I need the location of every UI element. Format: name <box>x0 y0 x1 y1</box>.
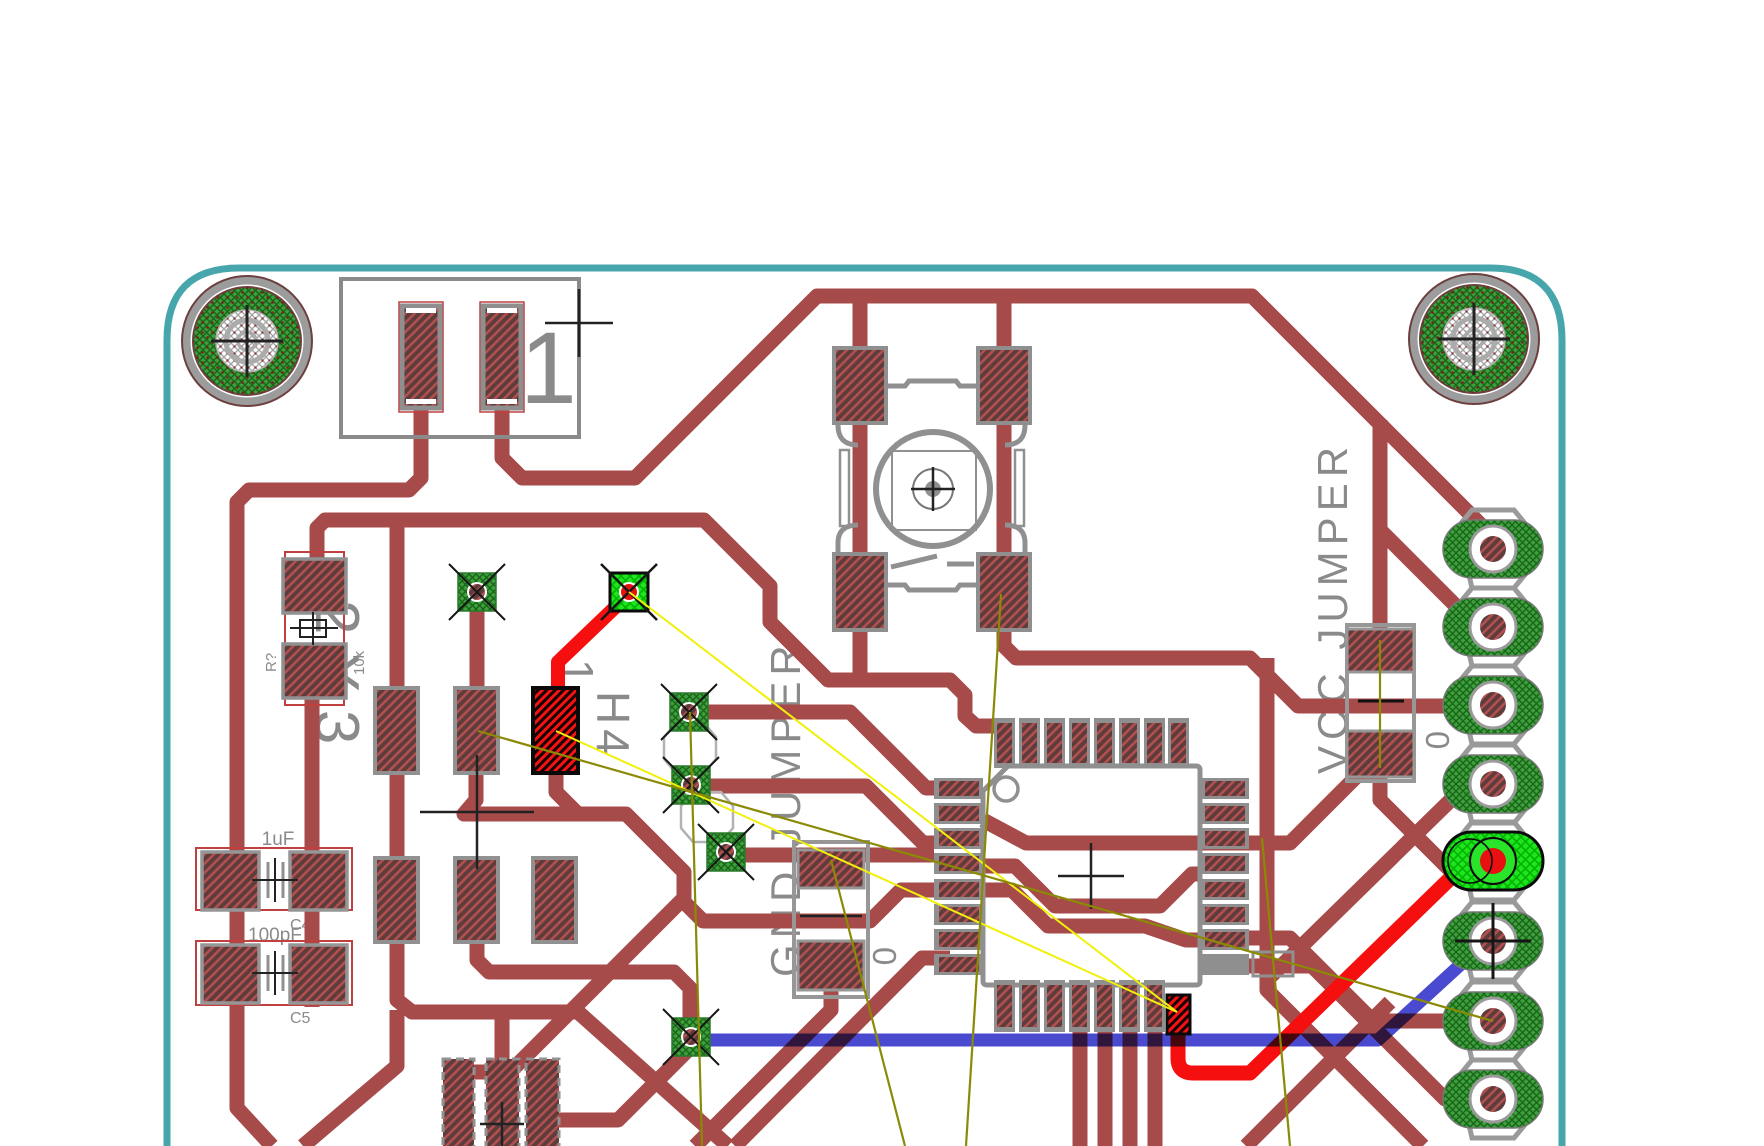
wire VCC jumper bottom pad to header pad5 <box>1380 777 1455 875</box>
via V5 <box>698 824 754 880</box>
via V3 <box>661 684 717 740</box>
airwire olive via V3 down <box>690 712 702 1146</box>
wire 2X3 r1c2 bottom to QFP pin L5 <box>464 773 934 921</box>
pad H4.1 selected <box>533 688 578 773</box>
crosshair J1 origin <box>545 289 613 357</box>
svg-text:R?: R? <box>263 653 280 672</box>
wire QFP bottom pin verticals <box>1080 1032 1155 1146</box>
QFP bottom pins, pin B8 selected <box>994 980 1190 1034</box>
pad S1.4 <box>978 554 1030 630</box>
airwire olive GND jumper down <box>831 860 905 1146</box>
svg-text:0: 0 <box>866 947 903 965</box>
green vias <box>449 564 754 1065</box>
pad r1c2 <box>455 688 498 773</box>
header pad 4 <box>1443 755 1543 813</box>
wire diagonal to bottom connector pad1 <box>473 898 684 1072</box>
via V6 <box>663 1009 719 1065</box>
pad r1c1 <box>375 688 418 773</box>
wire green via3 to QFP pin L4 <box>743 848 934 863</box>
bottom connector pads <box>443 1059 559 1146</box>
wire column1 lower diagonal to bottom edge <box>303 1010 397 1146</box>
connector J1 silkscreen box <box>341 279 613 437</box>
airwire yellow via V2 to QFP pin B8 <box>629 592 1177 1012</box>
wire vertical branch from switch net down right side <box>1267 658 1423 1146</box>
wire green via H to QFP pin L1 <box>707 712 934 788</box>
via V2 selected <box>601 564 657 620</box>
wire QFP pin R7 to header pad7 <box>1249 938 1468 1021</box>
wire QFP pin R8 to header pad8 <box>1249 966 1468 1099</box>
via V4 <box>663 757 719 813</box>
selected trace (bright red) from QFP pin B8 to header pad5 <box>1178 861 1490 1073</box>
QFP top pins 1-8 <box>994 718 1189 768</box>
wire switch pad TL up to bus <box>853 289 868 348</box>
pad r2c3 <box>533 858 576 942</box>
wire bottom connector pad3 to green via <box>559 1047 691 1120</box>
pin silhouettes near vias <box>664 723 733 842</box>
wire branch to bottom connector pad2 <box>495 1012 510 1065</box>
header pad 3 <box>1443 676 1543 734</box>
wire green via to 2X3 pad r1c2 <box>470 608 485 692</box>
airwire olive 2X3 r1c2 to header pad7 <box>478 731 1493 1021</box>
pad J1.1 <box>402 306 440 408</box>
connector 2X3 pads <box>375 688 578 942</box>
svg-text:1uF: 1uF <box>262 829 295 850</box>
selected trace (bright red) from H4 pad1 to via <box>558 594 629 700</box>
wire switch pad TR up to bus <box>997 289 1012 348</box>
crosshair 2X3 origin <box>420 755 534 869</box>
pad S1.2 <box>978 348 1030 423</box>
GND jumper SJ1 <box>794 842 868 997</box>
wire QFP interior net B <box>983 866 1202 906</box>
via V1 <box>449 564 505 620</box>
header pads right column <box>1443 510 1543 1138</box>
pad J1.2 <box>483 306 521 408</box>
svg-text:0: 0 <box>1419 731 1456 749</box>
wire header pad4 diagonal down-left <box>1268 790 1461 979</box>
board outline (teal) <box>239 268 1562 1146</box>
courtyard J1.1 <box>399 302 443 412</box>
pad S1.3 <box>834 554 886 630</box>
airwire olive right <box>1262 838 1290 1146</box>
IC U1 QFP32 <box>934 718 1293 1034</box>
wire from pad A2 right to top-right corner, down to VCC jumper and header pin1 <box>502 296 1489 533</box>
header pin silhouettes <box>1458 510 1528 1138</box>
wire diagonal parallel below GND jumper <box>735 958 950 1146</box>
header pad 8 <box>1443 1070 1543 1128</box>
mounting hole top-right <box>1409 274 1539 404</box>
wire switch TL to BL <box>853 423 868 554</box>
wire S-trace from R1 top across to QFP pin L1 <box>317 520 1000 726</box>
header pad 5 selected <box>1443 832 1543 890</box>
wire 2X3 r1c3 bottom short <box>556 773 578 814</box>
wire GND jumper bottom down to bottom edge <box>695 990 831 1146</box>
wire 2X3 column1 vertical <box>397 520 728 1146</box>
wire green via to QFP pin L3 <box>709 786 934 843</box>
wire switch BR right to header pad3 <box>1004 630 1465 706</box>
header pad 2 <box>1443 598 1543 656</box>
svg-text:C5: C5 <box>290 1010 311 1027</box>
svg-text:1: 1 <box>520 311 577 425</box>
airwire yellow H4.1 to QFP pin B8 <box>556 731 1177 1012</box>
pad S1.1 <box>834 348 886 423</box>
airwire olive switch pad S1.4 down <box>966 594 1001 1146</box>
capacitor C1 1uF <box>196 848 352 910</box>
header pad 6 <box>1443 903 1543 979</box>
wire switch TR to BR <box>997 423 1012 554</box>
wire QFP interior net C <box>983 890 1202 940</box>
QFP right pins <box>1200 778 1293 976</box>
VCC jumper SJ2 <box>1347 625 1414 781</box>
wire R1 bottom through caps right column <box>305 698 320 1007</box>
svg-text:100pF: 100pF <box>248 925 302 946</box>
wire branch to VCC jumper top pad <box>1373 420 1388 640</box>
pushbutton S1 <box>834 348 1030 630</box>
airwire olive VCC jumper <box>1379 640 1381 768</box>
bottom copper trace (blue) from via to header pad6 <box>691 944 1483 1040</box>
pad r2c1 <box>375 858 418 942</box>
resistor R1 10k <box>283 552 346 705</box>
wire branch VCC to header pad2 <box>1380 530 1477 627</box>
pad r2c2 <box>455 858 498 942</box>
header pad 1 <box>1443 520 1543 578</box>
wire switch BL stub down <box>853 630 868 682</box>
wire diagonal bottom-right <box>1246 1002 1390 1146</box>
wire from pad A1 down-left through caps to bottom edge <box>237 408 421 1146</box>
wire 2X3 r2c2 bottom to green via <box>477 941 690 1022</box>
header pad 7 <box>1443 992 1543 1050</box>
QFP left pins <box>934 778 983 975</box>
mounting hole top-left <box>182 276 312 406</box>
capacitor C2 100pF <box>196 941 352 1005</box>
wire QFP interior net A <box>983 773 1380 843</box>
